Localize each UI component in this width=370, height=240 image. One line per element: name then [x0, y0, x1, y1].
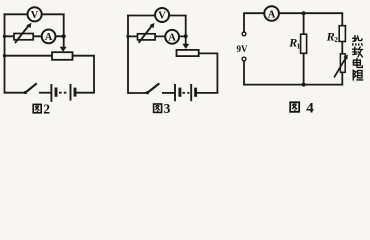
svg-text:9V: 9V [237, 44, 249, 54]
svg-text:2: 2 [43, 101, 50, 116]
svg-text:2: 2 [334, 35, 338, 44]
svg-text:A: A [168, 32, 176, 43]
svg-text:V: V [158, 11, 166, 22]
svg-text:V: V [31, 10, 39, 21]
svg-text:A: A [268, 9, 276, 20]
svg-text:3: 3 [164, 101, 171, 116]
svg-text:A: A [45, 32, 53, 43]
svg-text:4: 4 [306, 101, 314, 117]
svg-text:1: 1 [297, 41, 301, 50]
